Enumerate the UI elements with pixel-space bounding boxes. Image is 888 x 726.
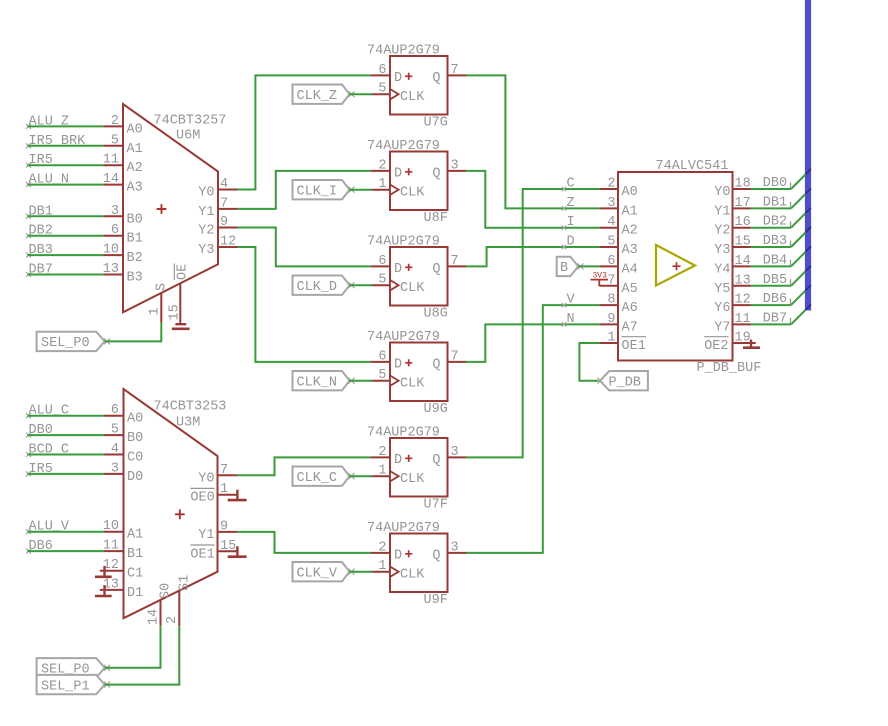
net label DB6 xyxy=(26,539,53,554)
svg-text:C0: C0 xyxy=(127,451,143,466)
svg-text:6: 6 xyxy=(378,254,386,269)
wire net DB3 xyxy=(751,227,811,247)
net label ALU_Z xyxy=(26,114,69,129)
U6M pin 7 Y1 xyxy=(198,196,237,220)
P_DB_BUF pin 11 Y7 xyxy=(714,312,750,336)
svg-text:Y0: Y0 xyxy=(714,185,730,200)
svg-text:D0: D0 xyxy=(127,470,143,485)
wire net SEL_P0 to U6M S xyxy=(105,322,162,341)
U8F pin 3 Q xyxy=(448,158,467,173)
U3M pin 4 C0 xyxy=(104,442,143,466)
svg-text:D: D xyxy=(394,358,402,373)
svg-text:U8F: U8F xyxy=(424,211,448,226)
svg-text:18: 18 xyxy=(735,177,751,192)
svg-text:U7G: U7G xyxy=(424,116,448,131)
label CLK_Z xyxy=(293,85,355,105)
U3M pin 13 D1 xyxy=(103,577,143,601)
svg-text:B3: B3 xyxy=(127,271,143,286)
svg-text:A0: A0 xyxy=(127,122,143,137)
U8F pin 1 CLK xyxy=(372,177,391,192)
svg-text:7: 7 xyxy=(451,349,459,364)
svg-text:DB6: DB6 xyxy=(763,292,787,307)
svg-text:Y4: Y4 xyxy=(714,262,730,277)
wire net IR5 to U6M xyxy=(27,164,103,166)
wire net ALU_C to U3M xyxy=(27,415,104,417)
svg-text:DB3: DB3 xyxy=(763,234,787,249)
svg-text:D: D xyxy=(567,235,575,250)
wire net ALU_V to U3M xyxy=(27,531,104,533)
wire net V from U9F Q to A6 xyxy=(466,305,600,553)
svg-text:CLK_N: CLK_N xyxy=(297,376,338,391)
svg-text:9: 9 xyxy=(607,312,615,327)
U6M pin 14 A3 xyxy=(103,172,143,196)
net label DB2 xyxy=(26,224,53,239)
svg-text:6: 6 xyxy=(111,223,119,238)
svg-text:U6M: U6M xyxy=(176,129,200,144)
svg-text:4: 4 xyxy=(220,177,228,192)
svg-text:7: 7 xyxy=(607,273,615,288)
svg-text:Q: Q xyxy=(432,71,440,86)
svg-text:DB5: DB5 xyxy=(763,273,787,288)
svg-text:Y2: Y2 xyxy=(714,224,730,239)
svg-text:S: S xyxy=(155,283,170,291)
svg-text:Y7: Y7 xyxy=(714,320,730,335)
ground at U3M pin C1 xyxy=(95,566,112,577)
svg-text:D1: D1 xyxy=(127,586,143,601)
net label DB7 xyxy=(26,263,53,278)
U9F pin 1 CLK xyxy=(372,559,391,574)
svg-text:13: 13 xyxy=(735,273,751,288)
buffer U? 74ALVC541 P_DB_BUF body xyxy=(618,159,761,376)
U3M pin 2 S1 xyxy=(165,575,193,626)
svg-text:1: 1 xyxy=(378,559,386,574)
svg-text:A0: A0 xyxy=(622,185,638,200)
svg-text:CLK_D: CLK_D xyxy=(297,280,338,295)
wire net CLK_Z xyxy=(349,93,371,95)
P_DB_BUF pin 16 Y2 xyxy=(714,215,750,239)
svg-text:A1: A1 xyxy=(127,142,143,157)
wire net CLK_N xyxy=(349,380,371,382)
label SEL_P1 xyxy=(37,675,110,695)
svg-text:74CBT3257: 74CBT3257 xyxy=(154,114,227,129)
svg-text:CLK_C: CLK_C xyxy=(297,471,338,486)
wire net U3M Y1 to U9F D xyxy=(237,532,371,553)
svg-text:17: 17 xyxy=(735,196,751,211)
svg-text:Y3: Y3 xyxy=(198,243,214,258)
net label DB3 xyxy=(763,234,791,249)
wire net DB4 xyxy=(751,246,811,266)
U8G pin 7 Q xyxy=(448,254,467,269)
svg-text:Q: Q xyxy=(432,549,440,564)
U6M pin 9 Y2 xyxy=(198,215,237,239)
svg-text:A3: A3 xyxy=(127,181,143,196)
svg-text:SEL_P0: SEL_P0 xyxy=(41,336,90,351)
svg-text:D: D xyxy=(394,167,402,182)
U3M pin 1 OE0 xyxy=(190,482,237,506)
svg-text:74AUP2G79: 74AUP2G79 xyxy=(367,521,440,536)
svg-text:7: 7 xyxy=(451,254,459,269)
net label N xyxy=(562,312,575,327)
wire net DB0 xyxy=(751,169,811,189)
wire net BCD_C to U3M xyxy=(27,454,104,456)
U3M pin 12 C1 xyxy=(103,558,143,582)
net label DB2 xyxy=(763,215,791,230)
wire net DB0 to U3M xyxy=(27,434,104,436)
U3M pin 5 B0 xyxy=(104,423,143,447)
svg-text:4: 4 xyxy=(111,442,119,457)
label CLK_N xyxy=(293,371,355,391)
wire net N from U9G Q to A7 xyxy=(466,324,600,362)
wire net DB2 xyxy=(751,208,811,228)
net label V xyxy=(562,293,576,308)
svg-text:A4: A4 xyxy=(622,262,638,277)
U3M pin 7 Y0 xyxy=(198,463,237,487)
wire net DB5 xyxy=(751,266,811,286)
net label DB4 xyxy=(763,253,791,268)
net label ALU_N xyxy=(26,173,69,188)
net label DB1 xyxy=(763,195,791,210)
svg-text:C1: C1 xyxy=(127,567,143,582)
label CLK_I xyxy=(293,180,355,200)
U7F pin 2 D xyxy=(371,445,390,460)
U9G pin 5 CLK xyxy=(372,368,391,383)
wire net SEL_P1 to U3M S1 xyxy=(105,626,180,684)
wire net U3M Y0 to U7F D xyxy=(237,457,371,475)
net label DB5 xyxy=(763,273,791,288)
svg-text:7: 7 xyxy=(220,463,228,478)
P_DB_BUF pin 12 Y6 xyxy=(714,293,750,317)
flip-flop U7G 74AUP2G79 body xyxy=(367,44,448,131)
svg-text:3: 3 xyxy=(451,445,459,460)
svg-text:CLK: CLK xyxy=(400,281,425,296)
svg-text:12: 12 xyxy=(220,235,236,250)
svg-text:Q: Q xyxy=(432,453,440,468)
svg-text:D: D xyxy=(394,71,402,86)
svg-text:3: 3 xyxy=(111,204,119,219)
U7F pin 1 CLK xyxy=(372,464,391,479)
svg-text:7: 7 xyxy=(220,196,228,211)
svg-text:5: 5 xyxy=(378,368,386,383)
wire net U6M Y3 to U9G D xyxy=(238,247,371,362)
svg-text:74AUP2G79: 74AUP2G79 xyxy=(367,235,440,250)
svg-text:B1: B1 xyxy=(127,232,143,247)
svg-text:14: 14 xyxy=(103,172,119,187)
label SEL_P0 lower xyxy=(37,658,110,678)
svg-text:15: 15 xyxy=(168,304,183,320)
wire net SEL_P0 to U3M S0 xyxy=(105,626,161,668)
svg-text:OE: OE xyxy=(176,264,191,280)
U8G pin 5 CLK xyxy=(372,273,391,288)
net label I xyxy=(562,215,575,230)
U3M pin 3 D0 xyxy=(104,461,143,485)
svg-text:11: 11 xyxy=(735,312,751,327)
flip-flop U7F 74AUP2G79 body xyxy=(367,426,448,513)
buffer symbol triangle xyxy=(656,245,695,286)
P_DB_BUF pin 3 A1 xyxy=(600,196,638,220)
svg-text:19: 19 xyxy=(735,331,751,346)
U7G pin 6 D xyxy=(371,63,390,78)
wire net CLK_I xyxy=(349,189,371,191)
U3M pin 6 A0 xyxy=(104,403,143,427)
svg-text:5: 5 xyxy=(111,423,119,438)
svg-text:A3: A3 xyxy=(622,243,638,258)
svg-text:74AUP2G79: 74AUP2G79 xyxy=(367,426,440,441)
svg-text:P_DB_BUF: P_DB_BUF xyxy=(697,361,762,376)
U6M pin 6 B1 xyxy=(104,223,143,247)
wire net ALU_Z to U6M xyxy=(27,125,103,127)
svg-text:Z: Z xyxy=(567,196,575,211)
svg-text:11: 11 xyxy=(103,153,119,168)
net label DB3 xyxy=(26,243,53,258)
svg-text:Y1: Y1 xyxy=(714,204,730,219)
label CLK_C xyxy=(293,467,355,487)
svg-text:3: 3 xyxy=(451,158,459,173)
svg-text:CLK: CLK xyxy=(400,90,425,105)
wire net U6M Y0 to U7G D xyxy=(238,75,371,189)
svg-text:Y0: Y0 xyxy=(198,186,214,201)
svg-text:15: 15 xyxy=(735,235,751,250)
svg-text:14: 14 xyxy=(147,609,162,625)
U9G pin 6 D xyxy=(371,349,390,364)
net label IR5 xyxy=(26,153,53,168)
svg-text:A5: A5 xyxy=(622,282,638,297)
U9F pin 2 D xyxy=(371,540,390,555)
svg-text:6: 6 xyxy=(607,254,615,269)
svg-text:CLK: CLK xyxy=(400,186,425,201)
svg-text:SEL_P1: SEL_P1 xyxy=(41,679,90,694)
svg-text:B: B xyxy=(560,261,568,276)
multiplexer U6M 74CBT3257 body xyxy=(123,104,226,312)
svg-text:DB1: DB1 xyxy=(763,195,787,210)
svg-text:1: 1 xyxy=(148,307,163,315)
svg-text:B0: B0 xyxy=(127,212,143,227)
U3M pin 15 OE1 xyxy=(190,539,237,563)
flip-flop U8G 74AUP2G79 body xyxy=(367,235,448,322)
U3M pin 11 B1 xyxy=(103,539,143,563)
svg-text:15: 15 xyxy=(220,539,236,554)
svg-text:5: 5 xyxy=(378,273,386,288)
svg-text:CLK_Z: CLK_Z xyxy=(297,89,338,104)
svg-text:U9F: U9F xyxy=(424,593,448,608)
P_DB_BUF pin 2 A0 xyxy=(600,177,638,201)
U6M pin 10 B2 xyxy=(103,243,143,267)
U6M pin 13 B3 xyxy=(103,262,143,286)
U6M pin 11 A2 xyxy=(103,153,143,177)
wire net DB1 to U6M xyxy=(27,215,103,217)
ground at U3M pin D1 xyxy=(95,585,112,596)
wire net DB6 to U3M xyxy=(27,550,104,552)
svg-text:A1: A1 xyxy=(127,528,143,543)
svg-text:6: 6 xyxy=(378,349,386,364)
svg-text:A0: A0 xyxy=(127,412,143,427)
P_DB_BUF pin 6 A4 xyxy=(600,254,638,278)
svg-text:OE2: OE2 xyxy=(704,339,728,354)
svg-text:N: N xyxy=(567,312,575,327)
svg-text:5: 5 xyxy=(607,235,615,250)
svg-text:CLK: CLK xyxy=(400,472,425,487)
svg-text:14: 14 xyxy=(735,254,751,269)
net label ALU_C xyxy=(26,404,69,419)
P_DB_BUF pin 15 Y3 xyxy=(714,235,750,259)
svg-text:S0: S0 xyxy=(159,583,174,599)
U7G pin 5 CLK xyxy=(372,82,391,97)
svg-text:2: 2 xyxy=(607,177,615,192)
label B xyxy=(557,257,584,277)
svg-text:Y5: Y5 xyxy=(714,282,730,297)
U6M pin 4 Y0 xyxy=(198,177,237,201)
svg-text:D: D xyxy=(394,262,402,277)
svg-text:Q: Q xyxy=(432,262,440,277)
svg-text:16: 16 xyxy=(735,215,751,230)
svg-text:11: 11 xyxy=(103,539,119,554)
wire net IR5 to U3M xyxy=(27,473,104,475)
svg-text:D: D xyxy=(394,549,402,564)
svg-text:OE0: OE0 xyxy=(190,491,214,506)
svg-text:CLK_I: CLK_I xyxy=(297,185,338,200)
svg-text:DB0: DB0 xyxy=(763,176,787,191)
P_DB_BUF pin 5 A3 xyxy=(600,235,638,259)
U8G pin 6 D xyxy=(371,254,390,269)
U8F pin 2 D xyxy=(371,158,390,173)
svg-text:8: 8 xyxy=(607,293,615,308)
U6M pin 5 A1 xyxy=(104,133,143,157)
P_DB_BUF pin 19 OE2 xyxy=(704,331,756,355)
wire net U6M Y2 to U8G D xyxy=(238,228,371,267)
svg-text:V: V xyxy=(567,293,576,308)
svg-text:74CBT3253: 74CBT3253 xyxy=(154,400,227,415)
svg-text:74AUP2G79: 74AUP2G79 xyxy=(367,44,440,59)
net label IR5 xyxy=(26,462,53,477)
svg-text:OE1: OE1 xyxy=(190,547,214,562)
svg-text:9: 9 xyxy=(220,519,228,534)
svg-text:Y2: Y2 xyxy=(198,224,214,239)
svg-text:A7: A7 xyxy=(622,320,638,335)
net label BCD_C xyxy=(26,443,69,458)
svg-text:U9G: U9G xyxy=(424,402,448,417)
svg-text:CLK_V: CLK_V xyxy=(297,567,338,582)
svg-text:P_DB: P_DB xyxy=(609,376,641,391)
wire net DB1 xyxy=(751,188,811,208)
net label DB1 xyxy=(26,204,53,219)
svg-text:1: 1 xyxy=(220,482,228,497)
svg-text:A2: A2 xyxy=(622,224,638,239)
ground at P_DB_BUF OE2 xyxy=(743,340,760,348)
svg-text:I: I xyxy=(567,215,575,230)
svg-text:2: 2 xyxy=(378,540,386,555)
svg-text:6: 6 xyxy=(378,63,386,78)
svg-text:U8G: U8G xyxy=(424,307,448,322)
net label C xyxy=(562,177,575,192)
net label DB0 xyxy=(763,176,791,191)
flip-flop U9F 74AUP2G79 body xyxy=(367,521,448,608)
net label DB0 xyxy=(26,423,53,438)
svg-text:2: 2 xyxy=(111,114,119,129)
P_DB_BUF pin 14 Y4 xyxy=(714,254,750,278)
wire net ALU_N to U6M xyxy=(27,184,103,186)
svg-text:1: 1 xyxy=(378,177,386,192)
svg-text:B0: B0 xyxy=(127,431,143,446)
P_DB_BUF pin 18 Y0 xyxy=(714,177,750,201)
svg-text:A2: A2 xyxy=(127,161,143,176)
svg-text:S1: S1 xyxy=(178,575,193,591)
wire net U6M Y1 to U8F D xyxy=(238,171,371,209)
P_DB_BUF pin 8 A6 xyxy=(600,293,638,317)
svg-text:U3M: U3M xyxy=(176,416,200,431)
net label DB7 xyxy=(763,311,791,326)
label SEL_P0 upper xyxy=(37,332,110,352)
svg-text:3: 3 xyxy=(607,196,615,211)
label CLK_V xyxy=(293,562,355,582)
net label D xyxy=(562,235,575,250)
svg-text:CLK: CLK xyxy=(400,568,425,583)
flip-flop U8F 74AUP2G79 body xyxy=(367,139,448,226)
U6M pin 1 S select xyxy=(148,283,170,323)
wire net IR5_BRK to U6M xyxy=(27,145,103,147)
multiplexer U3M 74CBT3253 body xyxy=(124,389,227,618)
svg-text:D: D xyxy=(394,453,402,468)
P_DB_BUF pin 13 Y5 xyxy=(714,273,750,297)
ground at U3M OE0 xyxy=(228,490,247,500)
svg-text:Y3: Y3 xyxy=(714,243,730,258)
svg-text:Q: Q xyxy=(432,358,440,373)
net label ALU_V xyxy=(26,520,70,535)
net label IR5_BRK xyxy=(26,134,86,149)
U7F pin 3 Q xyxy=(448,445,467,460)
P_DB_BUF pin 7 A5 xyxy=(600,273,638,297)
svg-text:OE1: OE1 xyxy=(622,339,646,354)
P_DB_BUF pin 4 A2 xyxy=(600,215,638,239)
wire net DB2 to U6M xyxy=(27,235,103,237)
svg-text:U7F: U7F xyxy=(424,498,448,513)
svg-text:Y6: Y6 xyxy=(714,301,730,316)
P_DB_BUF pin 17 Y1 xyxy=(714,196,750,220)
U6M pin 12 Y3 xyxy=(198,235,237,259)
U9F pin 3 Q xyxy=(448,540,467,555)
wire net DB7 xyxy=(751,304,811,324)
svg-text:10: 10 xyxy=(103,519,119,534)
label P_DB xyxy=(598,371,648,391)
svg-text:5: 5 xyxy=(378,82,386,97)
svg-text:3: 3 xyxy=(111,461,119,476)
wire net I from U8F Q to A2 xyxy=(466,171,600,228)
svg-text:DB4: DB4 xyxy=(763,253,787,268)
flip-flop U9G 74AUP2G79 body xyxy=(367,330,448,417)
svg-text:9: 9 xyxy=(220,215,228,230)
svg-text:Y1: Y1 xyxy=(198,205,214,220)
supply 3V3 at P_DB_BUF A5 xyxy=(591,272,609,287)
svg-text:2: 2 xyxy=(378,158,386,173)
svg-text:2: 2 xyxy=(378,445,386,460)
U7G pin 7 Q xyxy=(448,63,467,78)
svg-text:A6: A6 xyxy=(622,301,638,316)
net label Z xyxy=(562,196,575,211)
svg-text:Q: Q xyxy=(432,167,440,182)
wire net CLK_V xyxy=(349,571,371,573)
U6M pin 15 OE enable xyxy=(168,264,191,325)
label CLK_D xyxy=(293,276,355,296)
wire net Z from U7G Q to A1 xyxy=(466,75,600,208)
ground at U3M OE1 xyxy=(228,546,247,556)
svg-text:DB7: DB7 xyxy=(763,311,787,326)
svg-text:C: C xyxy=(567,177,575,192)
wire net DB6 xyxy=(751,285,811,305)
bus P_DB[0..7] xyxy=(805,0,811,311)
svg-text:13: 13 xyxy=(103,262,119,277)
svg-text:1: 1 xyxy=(378,464,386,479)
svg-text:6: 6 xyxy=(111,403,119,418)
U3M pin 14 S0 xyxy=(147,583,174,626)
svg-text:Y1: Y1 xyxy=(198,528,214,543)
